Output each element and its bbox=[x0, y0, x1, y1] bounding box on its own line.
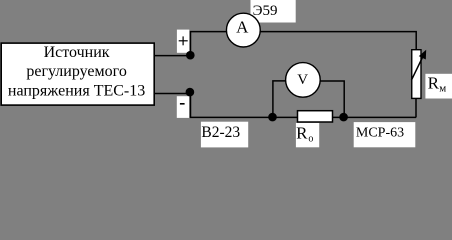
svg-text:м: м bbox=[439, 83, 446, 95]
svg-text:Источник: Источник bbox=[44, 44, 110, 61]
svg-text:МСР-63: МСР-63 bbox=[356, 126, 404, 141]
svg-text:регулируемого: регулируемого bbox=[26, 63, 126, 80]
svg-text:напряжения ТЕС-13: напряжения ТЕС-13 bbox=[8, 82, 145, 99]
svg-text:R: R bbox=[428, 73, 440, 92]
svg-text:o: o bbox=[308, 134, 313, 145]
svg-text:Э59: Э59 bbox=[253, 3, 278, 19]
svg-text:В2-23: В2-23 bbox=[201, 124, 240, 141]
svg-text:А: А bbox=[236, 18, 249, 37]
svg-text:V: V bbox=[297, 72, 308, 88]
svg-text:R: R bbox=[296, 123, 308, 142]
